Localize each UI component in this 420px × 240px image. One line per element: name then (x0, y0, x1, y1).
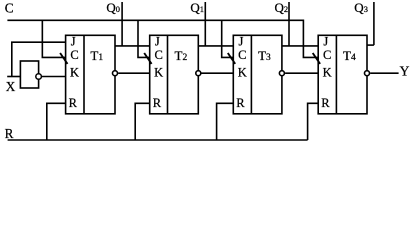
dynamic-input slash at T4 C pin (313, 53, 320, 64)
svg-text:J: J (155, 34, 160, 48)
wire C tap to T1 clock input (42, 20, 65, 57)
wire Q3 stub to T4 output edge (367, 44, 374, 46)
svg-text:R: R (321, 96, 330, 110)
wire T2 output (202, 72, 234, 74)
wire Q0 vertical (121, 2, 123, 46)
svg-text:T1: T1 (90, 48, 103, 63)
svg-text:Q0: Q0 (106, 0, 120, 15)
flip-flop T1 box (66, 35, 115, 114)
wire J feed into T3 (198, 45, 233, 47)
wire X input (7, 76, 20, 78)
svg-text:R: R (236, 96, 245, 110)
svg-text:Q1: Q1 (190, 0, 204, 15)
wire clock rail (7, 20, 318, 57)
svg-text:K: K (70, 65, 79, 79)
svg-text:Q3: Q3 (354, 0, 368, 15)
svg-text:K: K (323, 65, 332, 79)
inverter G1 (NOT gate box) (20, 61, 38, 88)
dynamic-input slash at T3 C pin (228, 53, 235, 64)
svg-text:T3: T3 (258, 48, 271, 63)
svg-text:X: X (6, 79, 16, 94)
flip-flop T4 output bubble (365, 71, 370, 76)
wire T4 output (370, 72, 398, 74)
wire reset rail (8, 139, 308, 141)
svg-text:K: K (238, 65, 247, 79)
wire reset tap for T3 (217, 103, 234, 140)
wire C tap to T3 clock input (222, 20, 234, 57)
flip-flop T2 internal divider (167, 35, 169, 114)
wire reset tap for T2 (135, 103, 150, 140)
svg-text:Y: Y (400, 64, 410, 79)
flip-flop T2 box (150, 35, 199, 114)
svg-text:R: R (153, 96, 162, 110)
svg-text:K: K (154, 65, 163, 79)
svg-text:J: J (239, 34, 244, 48)
svg-text:T2: T2 (175, 48, 188, 63)
flip-flop T3 box (233, 35, 282, 114)
inverter G1 output bubble (36, 74, 42, 80)
svg-text:C: C (70, 48, 78, 62)
svg-text:T4: T4 (343, 48, 356, 63)
svg-text:C: C (238, 48, 246, 62)
svg-text:R: R (69, 96, 78, 110)
svg-text:Q2: Q2 (275, 0, 289, 15)
svg-text:J: J (323, 34, 328, 48)
dynamic-input slash at T2 C pin (144, 53, 151, 64)
flip-flop T4 box (318, 35, 367, 114)
svg-text:C: C (155, 48, 163, 62)
svg-text:C: C (5, 1, 14, 16)
wire X branch to J of T1 (12, 42, 66, 76)
wire reset tap for T4 (308, 103, 319, 140)
flip-flop T3 output bubble (279, 71, 284, 76)
svg-text:C: C (323, 48, 331, 62)
wire T3 output (285, 72, 318, 74)
svg-text:J: J (71, 34, 76, 48)
wire G1 output to K of T1 (41, 76, 65, 78)
flip-flop T3 internal divider (250, 35, 252, 114)
flip-flop T1 internal divider (83, 35, 85, 114)
wire J feed into T2 (115, 45, 150, 47)
flip-flop T1 output bubble (113, 71, 118, 76)
dynamic-input slash at T1 C pin (60, 53, 67, 64)
wire J feed into T4 (282, 45, 318, 47)
svg-text:R: R (5, 126, 14, 141)
wire reset tap for T1 (47, 103, 66, 140)
wire Q3 vertical (373, 2, 375, 45)
flip-flop T2 output bubble (196, 71, 201, 76)
wire Q2 vertical (288, 2, 290, 46)
wire Q1 vertical (204, 2, 206, 46)
wire C tap to T2 clock input (138, 20, 150, 57)
wire T1 output (118, 72, 150, 74)
flip-flop T4 internal divider (335, 35, 337, 114)
